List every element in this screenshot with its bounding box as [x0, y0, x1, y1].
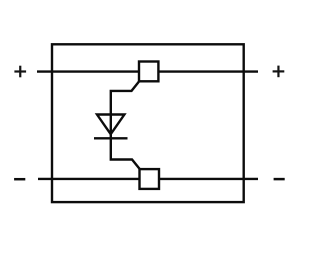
diode (cathode bar)	[94, 137, 128, 139]
wire: - rail (bottom horizontal)	[38, 178, 258, 180]
terminal square (bottom, - clamp)	[140, 169, 160, 189]
wire: + rail (top horizontal)	[37, 70, 258, 72]
plus label (left, + net)	[14, 66, 26, 78]
outer enclosure box	[52, 44, 244, 202]
wire: diode branch (jog from top terminal through diode to bottom terminal)	[111, 81, 140, 169]
diode (anode triangle)	[97, 115, 124, 135]
minus label (right, - net)	[274, 178, 285, 181]
minus label (left, - net)	[14, 178, 25, 181]
terminal square (top, + clamp)	[139, 62, 158, 82]
plus label (right, + net)	[273, 66, 285, 78]
